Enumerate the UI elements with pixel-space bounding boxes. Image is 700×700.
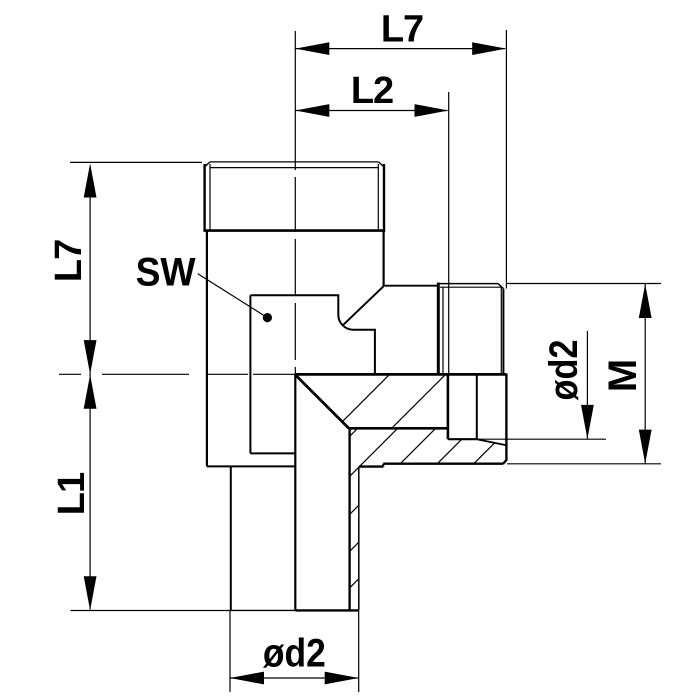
top thread: chamfer diag left (205, 162, 210, 167)
dim L2: right extension line (448, 92, 450, 373)
arrow left L1 down (84, 576, 97, 610)
port top edge (438, 284, 503, 289)
cut vertical centerline edge (294, 375, 296, 610)
ext od2 right (478, 438, 606, 440)
arrow L2 left (295, 104, 329, 117)
svg-text:ød2: ød2 (263, 632, 326, 676)
tube bore wall (348, 428, 350, 610)
top thread: bottom thick (203, 229, 385, 232)
port bore line (448, 438, 477, 440)
port chamfer line (440, 286, 502, 288)
cut line port axis (295, 373, 506, 376)
port thread left edge thick (437, 283, 440, 374)
arrow M top (639, 284, 652, 318)
port end chamfer diagonal (477, 439, 507, 445)
ext line bottom-left (L1) (71, 610, 231, 612)
svg-text:ød2: ød2 (542, 340, 586, 401)
centerline vertical axis (294, 31, 296, 375)
port thread root left (442, 287, 444, 373)
body right edge (383, 231, 385, 286)
port thread root right (500, 287, 502, 373)
dim left vertical line (L7/L1) (89, 166, 91, 610)
arrow od2 right down (581, 405, 594, 439)
body bottom edge (207, 465, 295, 467)
hex flat bottom (250, 452, 294, 454)
tube left edge (230, 466, 232, 610)
dim L2: dimension line (295, 110, 447, 112)
hatch region CD (350, 428, 495, 588)
tube bottom edge thick half (295, 609, 359, 611)
port bottom face (383, 463, 503, 465)
svg-text:M: M (601, 360, 645, 392)
top thread: top edge (210, 161, 378, 163)
top thread: outer left (203, 164, 205, 231)
dim od2 bottom: dimension line (230, 677, 359, 679)
top thread: outer right (383, 164, 385, 231)
body bottom right (359, 465, 384, 467)
cut line bore bottom (349, 427, 448, 430)
arrow L7 right (472, 42, 506, 55)
top thread: root right (377, 164, 379, 229)
port right edge lower (503, 374, 506, 464)
ext M bottom (507, 463, 661, 465)
svg-text:L2: L2 (351, 70, 393, 112)
hex flat left edge (249, 295, 251, 453)
ext od2 bottom left (229, 611, 231, 692)
arrow M bottom (639, 430, 652, 464)
cut vertical bore end (447, 374, 450, 440)
boss top edge (384, 285, 438, 287)
arrow L2 right (415, 104, 449, 117)
dim M right: dimension line (644, 284, 646, 464)
dim L7 top: right extension line (505, 30, 507, 289)
arrow left L7 up (84, 164, 97, 198)
top thread: chamfer line (210, 167, 378, 169)
arrow left L1 up (bowtie bottom) (84, 375, 97, 409)
tube bottom edge thin half (230, 609, 295, 611)
SW dot (263, 313, 272, 322)
body left edge (206, 231, 208, 467)
centerline horizontal axis (left) (59, 373, 295, 375)
arrow od2 bottom right (325, 672, 359, 685)
svg-text:L7: L7 (381, 9, 423, 51)
svg-text:SW: SW (136, 251, 196, 295)
arrow left L7 down (bowtie top) (84, 340, 97, 374)
svg-text:L1: L1 (51, 472, 93, 515)
ext od2 bottom right (358, 611, 360, 692)
dim L7 top: dimension line (295, 48, 505, 50)
hatch region B (342, 375, 445, 428)
cut diagonal (296, 376, 349, 429)
top thread: root left (209, 164, 211, 229)
port right edge upper (502, 289, 504, 374)
leader line SW (198, 274, 268, 318)
ext line top-left (70, 161, 202, 163)
arrow L7 left (295, 42, 329, 55)
hex flat outline (250, 295, 375, 373)
arrow od2 bottom left (230, 672, 264, 685)
tube right edge (358, 467, 360, 611)
ext M top (507, 283, 661, 285)
top thread: chamfer diag right (378, 162, 384, 167)
dim od2 right: dimension line (586, 331, 588, 439)
svg-text:L7: L7 (48, 240, 90, 282)
step vertical (382, 464, 384, 467)
port counterbore vertical (476, 375, 478, 440)
body chamfer diagonal (343, 286, 384, 325)
arrows (84, 42, 652, 684)
